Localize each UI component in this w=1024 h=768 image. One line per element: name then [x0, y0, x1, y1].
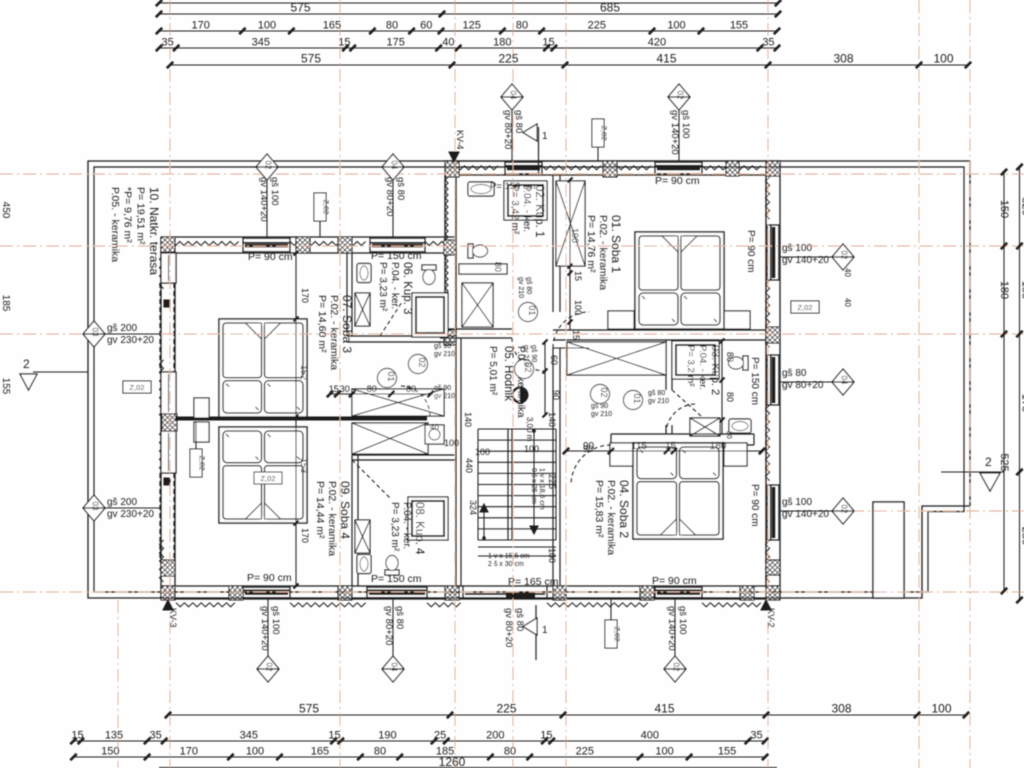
svg-text:*P= 9,76 m²: *P= 9,76 m²	[122, 187, 134, 243]
svg-text:P= 90 cm: P= 90 cm	[745, 230, 756, 273]
svg-text:gš 80: gš 80	[648, 390, 665, 397]
svg-text:2: 2	[23, 357, 30, 371]
svg-text:01: 01	[386, 371, 396, 381]
svg-text:180: 180	[493, 37, 511, 49]
svg-text:gš 80: gš 80	[525, 277, 532, 294]
svg-text:320: 320	[1019, 197, 1024, 215]
svg-text:40: 40	[442, 37, 454, 49]
svg-text:P= 14,76 m²: P= 14,76 m²	[585, 215, 597, 273]
svg-text:420: 420	[648, 37, 666, 49]
svg-text:06. Kup. 3: 06. Kup. 3	[401, 262, 413, 314]
svg-text:P= 5,01 m²: P= 5,01 m²	[487, 346, 498, 396]
svg-text:80: 80	[374, 746, 386, 758]
svg-text:Z,02: Z,02	[198, 455, 207, 470]
svg-text:P.02. - keramika: P.02. - keramika	[597, 215, 609, 290]
svg-text:225: 225	[576, 746, 594, 758]
svg-text:345: 345	[252, 37, 270, 49]
svg-text:575: 575	[290, 1, 310, 15]
svg-text:185: 185	[0, 295, 11, 312]
svg-text:gv 80+20: gv 80+20	[503, 608, 514, 647]
svg-text:P= 90 cm: P= 90 cm	[247, 572, 292, 584]
svg-text:40: 40	[430, 423, 439, 432]
svg-text:450: 450	[0, 202, 11, 219]
svg-text:100: 100	[573, 300, 583, 315]
svg-text:1260: 1260	[439, 755, 466, 768]
svg-text:08. Kup. 4: 08. Kup. 4	[413, 502, 425, 555]
svg-text:P= 3,23 m²: P= 3,23 m²	[377, 262, 388, 312]
svg-text:100: 100	[444, 438, 459, 448]
svg-text:Z,02: Z,02	[613, 626, 622, 641]
svg-text:40: 40	[843, 268, 852, 277]
svg-text:200: 200	[486, 730, 504, 742]
svg-text:170: 170	[192, 20, 210, 32]
svg-text:1 v x 18,6 cm: 1 v x 18,6 cm	[538, 468, 545, 510]
svg-text:Z,02: Z,02	[129, 383, 144, 392]
svg-text:gv 210: gv 210	[434, 351, 455, 358]
svg-text:100: 100	[258, 20, 276, 32]
svg-text:140: 140	[547, 412, 557, 427]
svg-text:100: 100	[246, 746, 264, 758]
svg-text:15: 15	[338, 37, 350, 49]
svg-text:gv 80+20: gv 80+20	[782, 380, 824, 391]
svg-text:100: 100	[655, 746, 673, 758]
svg-text:P= 19,51 m²: P= 19,51 m²	[134, 187, 146, 245]
svg-text:gš 100: gš 100	[782, 497, 812, 508]
svg-text:60: 60	[549, 355, 559, 365]
svg-text:415: 415	[656, 52, 676, 66]
svg-text:25: 25	[434, 730, 446, 742]
svg-text:P= 150 cm: P= 150 cm	[371, 573, 422, 585]
svg-text:P= 3,23 m²: P= 3,23 m²	[389, 502, 400, 552]
svg-text:P= 3,2 m²: P= 3,2 m²	[685, 345, 696, 386]
svg-text:15: 15	[71, 730, 83, 742]
svg-text:100: 100	[933, 52, 953, 66]
svg-text:gš 90: gš 90	[530, 345, 537, 362]
svg-text:04: 04	[509, 91, 518, 100]
svg-text:gv 140+20: gv 140+20	[666, 606, 677, 651]
svg-text:gš 200: gš 200	[107, 497, 137, 508]
svg-text:35: 35	[161, 37, 173, 49]
svg-text:135: 135	[105, 730, 123, 742]
svg-text:165: 165	[311, 746, 329, 758]
svg-text:gv 210: gv 210	[522, 345, 529, 366]
svg-text:35: 35	[762, 37, 774, 49]
svg-text:324: 324	[468, 500, 478, 515]
svg-text:230: 230	[1019, 527, 1024, 545]
svg-text:80: 80	[725, 392, 735, 402]
svg-text:gv 230+20: gv 230+20	[107, 335, 154, 346]
svg-text:15: 15	[573, 271, 583, 281]
svg-text:04. Soba 2: 04. Soba 2	[617, 480, 631, 538]
svg-text:15: 15	[328, 730, 340, 742]
svg-text:02: 02	[672, 663, 681, 672]
svg-text:80: 80	[493, 262, 503, 272]
svg-text:02: 02	[265, 663, 274, 672]
svg-text:170: 170	[300, 528, 310, 543]
svg-text:P= 150 cm: P= 150 cm	[371, 250, 422, 262]
svg-text:80: 80	[406, 384, 416, 394]
svg-text:P= 15,83 m²: P= 15,83 m²	[593, 480, 605, 538]
svg-text:35: 35	[750, 730, 762, 742]
svg-text:gš 100: gš 100	[677, 606, 688, 635]
svg-text:gv 140+20: gv 140+20	[782, 255, 829, 266]
svg-text:03: 03	[91, 502, 100, 511]
svg-text:80: 80	[516, 20, 528, 32]
svg-text:gš 80: gš 80	[395, 177, 406, 200]
svg-text:gš 80: gš 80	[514, 608, 525, 631]
svg-text:gš 100: gš 100	[680, 110, 691, 139]
svg-text:gš 90: gš 90	[591, 403, 608, 410]
svg-text:P.04. - ker.: P.04. - ker.	[389, 262, 400, 309]
svg-text:170: 170	[180, 746, 198, 758]
svg-text:P.02. - keramika: P.02. - keramika	[328, 295, 340, 370]
svg-text:80: 80	[386, 20, 398, 32]
svg-text:gv 140+20: gv 140+20	[669, 110, 680, 155]
svg-text:gš 80: gš 80	[513, 110, 524, 133]
svg-text:gv 210: gv 210	[517, 277, 524, 298]
svg-text:100: 100	[667, 20, 685, 32]
svg-text:gv 210: gv 210	[591, 411, 612, 418]
svg-text:150: 150	[998, 200, 1010, 218]
svg-text:P.02. - keramika: P.02. - keramika	[326, 481, 338, 556]
svg-text:02: 02	[676, 91, 685, 100]
svg-text:80: 80	[367, 384, 377, 394]
svg-text:02: 02	[599, 387, 609, 397]
svg-text:1: 1	[542, 625, 548, 636]
svg-text:P.04. - ker.: P.04. - ker.	[521, 185, 532, 232]
svg-text:415: 415	[654, 702, 674, 716]
svg-text:P= 90 cm: P= 90 cm	[749, 484, 760, 527]
svg-text:115: 115	[631, 441, 647, 452]
svg-text:80: 80	[725, 352, 735, 362]
svg-text:10. Natkr. terasa: 10. Natkr. terasa	[147, 187, 161, 275]
svg-text:400: 400	[641, 730, 659, 742]
svg-text:01: 01	[527, 305, 537, 315]
svg-text:170: 170	[300, 288, 310, 303]
svg-text:35: 35	[150, 730, 162, 742]
svg-text:100: 100	[931, 702, 951, 716]
svg-text:175: 175	[1019, 394, 1024, 412]
svg-text:gš 90: gš 90	[434, 385, 451, 392]
svg-text:1: 1	[542, 131, 548, 142]
svg-text:60: 60	[420, 20, 432, 32]
svg-text:165: 165	[323, 20, 341, 32]
svg-text:15: 15	[542, 37, 554, 49]
svg-text:3,00 m: 3,00 m	[525, 417, 534, 442]
svg-text:155: 155	[718, 746, 736, 758]
svg-text:KV-2: KV-2	[766, 608, 776, 628]
svg-text:02: 02	[417, 357, 427, 367]
svg-text:225: 225	[547, 474, 557, 489]
svg-text:15: 15	[540, 730, 552, 742]
svg-text:03. Kup. 2: 03. Kup. 2	[709, 345, 721, 395]
svg-text:Z,02: Z,02	[600, 125, 609, 140]
svg-text:1 v x 15,5 cm: 1 v x 15,5 cm	[488, 553, 530, 560]
svg-text:gv 80+20: gv 80+20	[384, 177, 395, 216]
svg-text:175: 175	[386, 37, 404, 49]
svg-text:02: 02	[840, 505, 849, 514]
svg-text:gš 80: gš 80	[394, 606, 405, 629]
svg-text:525: 525	[998, 453, 1010, 471]
svg-text:gš 80: gš 80	[782, 368, 807, 379]
svg-text:gv 80+20: gv 80+20	[383, 606, 394, 645]
svg-text:P= 3,42 m²: P= 3,42 m²	[509, 185, 520, 235]
svg-text:185: 185	[1019, 281, 1024, 299]
svg-text:Z,02: Z,02	[260, 474, 275, 483]
svg-text:09. Soba 4: 09. Soba 4	[338, 481, 352, 539]
svg-text:0 š x 25 cm: 0 š x 25 cm	[530, 468, 537, 504]
svg-text:2 š x 30 cm: 2 š x 30 cm	[488, 561, 524, 568]
svg-text:P= 165 cm: P= 165 cm	[508, 576, 559, 588]
svg-text:308: 308	[833, 52, 853, 66]
svg-text:gš 100: gš 100	[269, 177, 280, 206]
svg-text:P.02. - keramika: P.02. - keramika	[605, 480, 617, 555]
svg-text:575: 575	[299, 702, 319, 716]
svg-text:gv 140+20: gv 140+20	[258, 177, 269, 222]
svg-text:gš 200: gš 200	[107, 323, 137, 334]
svg-text:345: 345	[240, 730, 258, 742]
svg-text:KV-4: KV-4	[455, 130, 465, 150]
svg-text:155: 155	[730, 20, 748, 32]
svg-text:225: 225	[496, 702, 516, 716]
svg-text:308: 308	[831, 702, 851, 716]
svg-text:15: 15	[571, 330, 581, 340]
svg-text:04: 04	[390, 663, 399, 672]
svg-text:P= 150 cm: P= 150 cm	[749, 357, 760, 405]
svg-text:P.04. - ker.: P.04. - ker.	[697, 345, 708, 390]
svg-text:gv 230+20: gv 230+20	[107, 509, 154, 520]
svg-text:01: 01	[632, 393, 642, 403]
svg-text:04: 04	[840, 376, 849, 385]
svg-text:153: 153	[299, 458, 309, 473]
svg-text:190: 190	[378, 730, 396, 742]
svg-text:gš 100: gš 100	[270, 606, 281, 635]
svg-text:gv 140+20: gv 140+20	[782, 509, 829, 520]
svg-text:03: 03	[91, 328, 100, 337]
svg-text:P= 14,44 m²: P= 14,44 m²	[314, 481, 326, 539]
svg-text:P= 14,60 m²: P= 14,60 m²	[316, 295, 328, 353]
svg-text:30: 30	[725, 431, 732, 439]
svg-text:P= 90 cm: P= 90 cm	[248, 251, 293, 263]
svg-text:125: 125	[463, 20, 481, 32]
svg-text:100: 100	[524, 444, 539, 454]
svg-text:180: 180	[710, 441, 727, 452]
svg-text:440: 440	[464, 458, 474, 473]
svg-text:150: 150	[101, 746, 119, 758]
svg-text:P.04. - ker.: P.04. - ker.	[401, 502, 412, 549]
svg-text:gv 80+20: gv 80+20	[502, 110, 513, 149]
svg-text:05. Hodnik: 05. Hodnik	[502, 346, 514, 401]
svg-text:90: 90	[583, 444, 593, 454]
svg-text:P= 90 cm: P= 90 cm	[652, 575, 697, 587]
svg-text:575: 575	[301, 52, 321, 66]
svg-text:30: 30	[340, 384, 350, 394]
svg-text:02: 02	[264, 161, 273, 170]
svg-text:04: 04	[390, 161, 399, 170]
svg-text:gv 140+20: gv 140+20	[259, 606, 270, 651]
svg-text:Z,02: Z,02	[797, 303, 812, 312]
svg-text:155: 155	[0, 378, 11, 395]
svg-text:40: 40	[843, 298, 852, 307]
svg-text:685: 685	[600, 1, 620, 15]
svg-text:152: 152	[299, 365, 309, 380]
svg-text:Z,02: Z,02	[322, 199, 331, 214]
svg-text:90: 90	[551, 390, 561, 400]
svg-text:P= 150 cm: P= 150 cm	[490, 181, 536, 192]
svg-text:KV-3: KV-3	[168, 608, 178, 628]
svg-text:190: 190	[570, 228, 580, 243]
svg-text:225: 225	[498, 52, 518, 66]
svg-text:180: 180	[998, 281, 1010, 299]
svg-text:100: 100	[475, 447, 490, 457]
svg-text:gv 210: gv 210	[648, 398, 669, 405]
svg-text:gv 210: gv 210	[434, 393, 455, 400]
svg-text:140: 140	[463, 412, 473, 427]
svg-text:100: 100	[547, 548, 557, 563]
svg-text:2: 2	[985, 455, 992, 469]
svg-text:02. Kup. 1: 02. Kup. 1	[533, 185, 545, 237]
svg-text:P.05. - keramika: P.05. - keramika	[109, 187, 121, 262]
svg-text:01. Soba 1: 01. Soba 1	[609, 215, 623, 273]
svg-text:15: 15	[329, 384, 339, 394]
svg-text:07. Soba 3: 07. Soba 3	[340, 295, 354, 353]
svg-text:gš 90: gš 90	[434, 343, 451, 350]
svg-text:02: 02	[840, 251, 849, 260]
svg-text:P= 90 cm: P= 90 cm	[655, 175, 700, 187]
svg-text:80: 80	[504, 746, 516, 758]
svg-text:225: 225	[588, 20, 606, 32]
svg-text:gš 100: gš 100	[782, 243, 812, 254]
svg-text:15: 15	[665, 441, 677, 452]
